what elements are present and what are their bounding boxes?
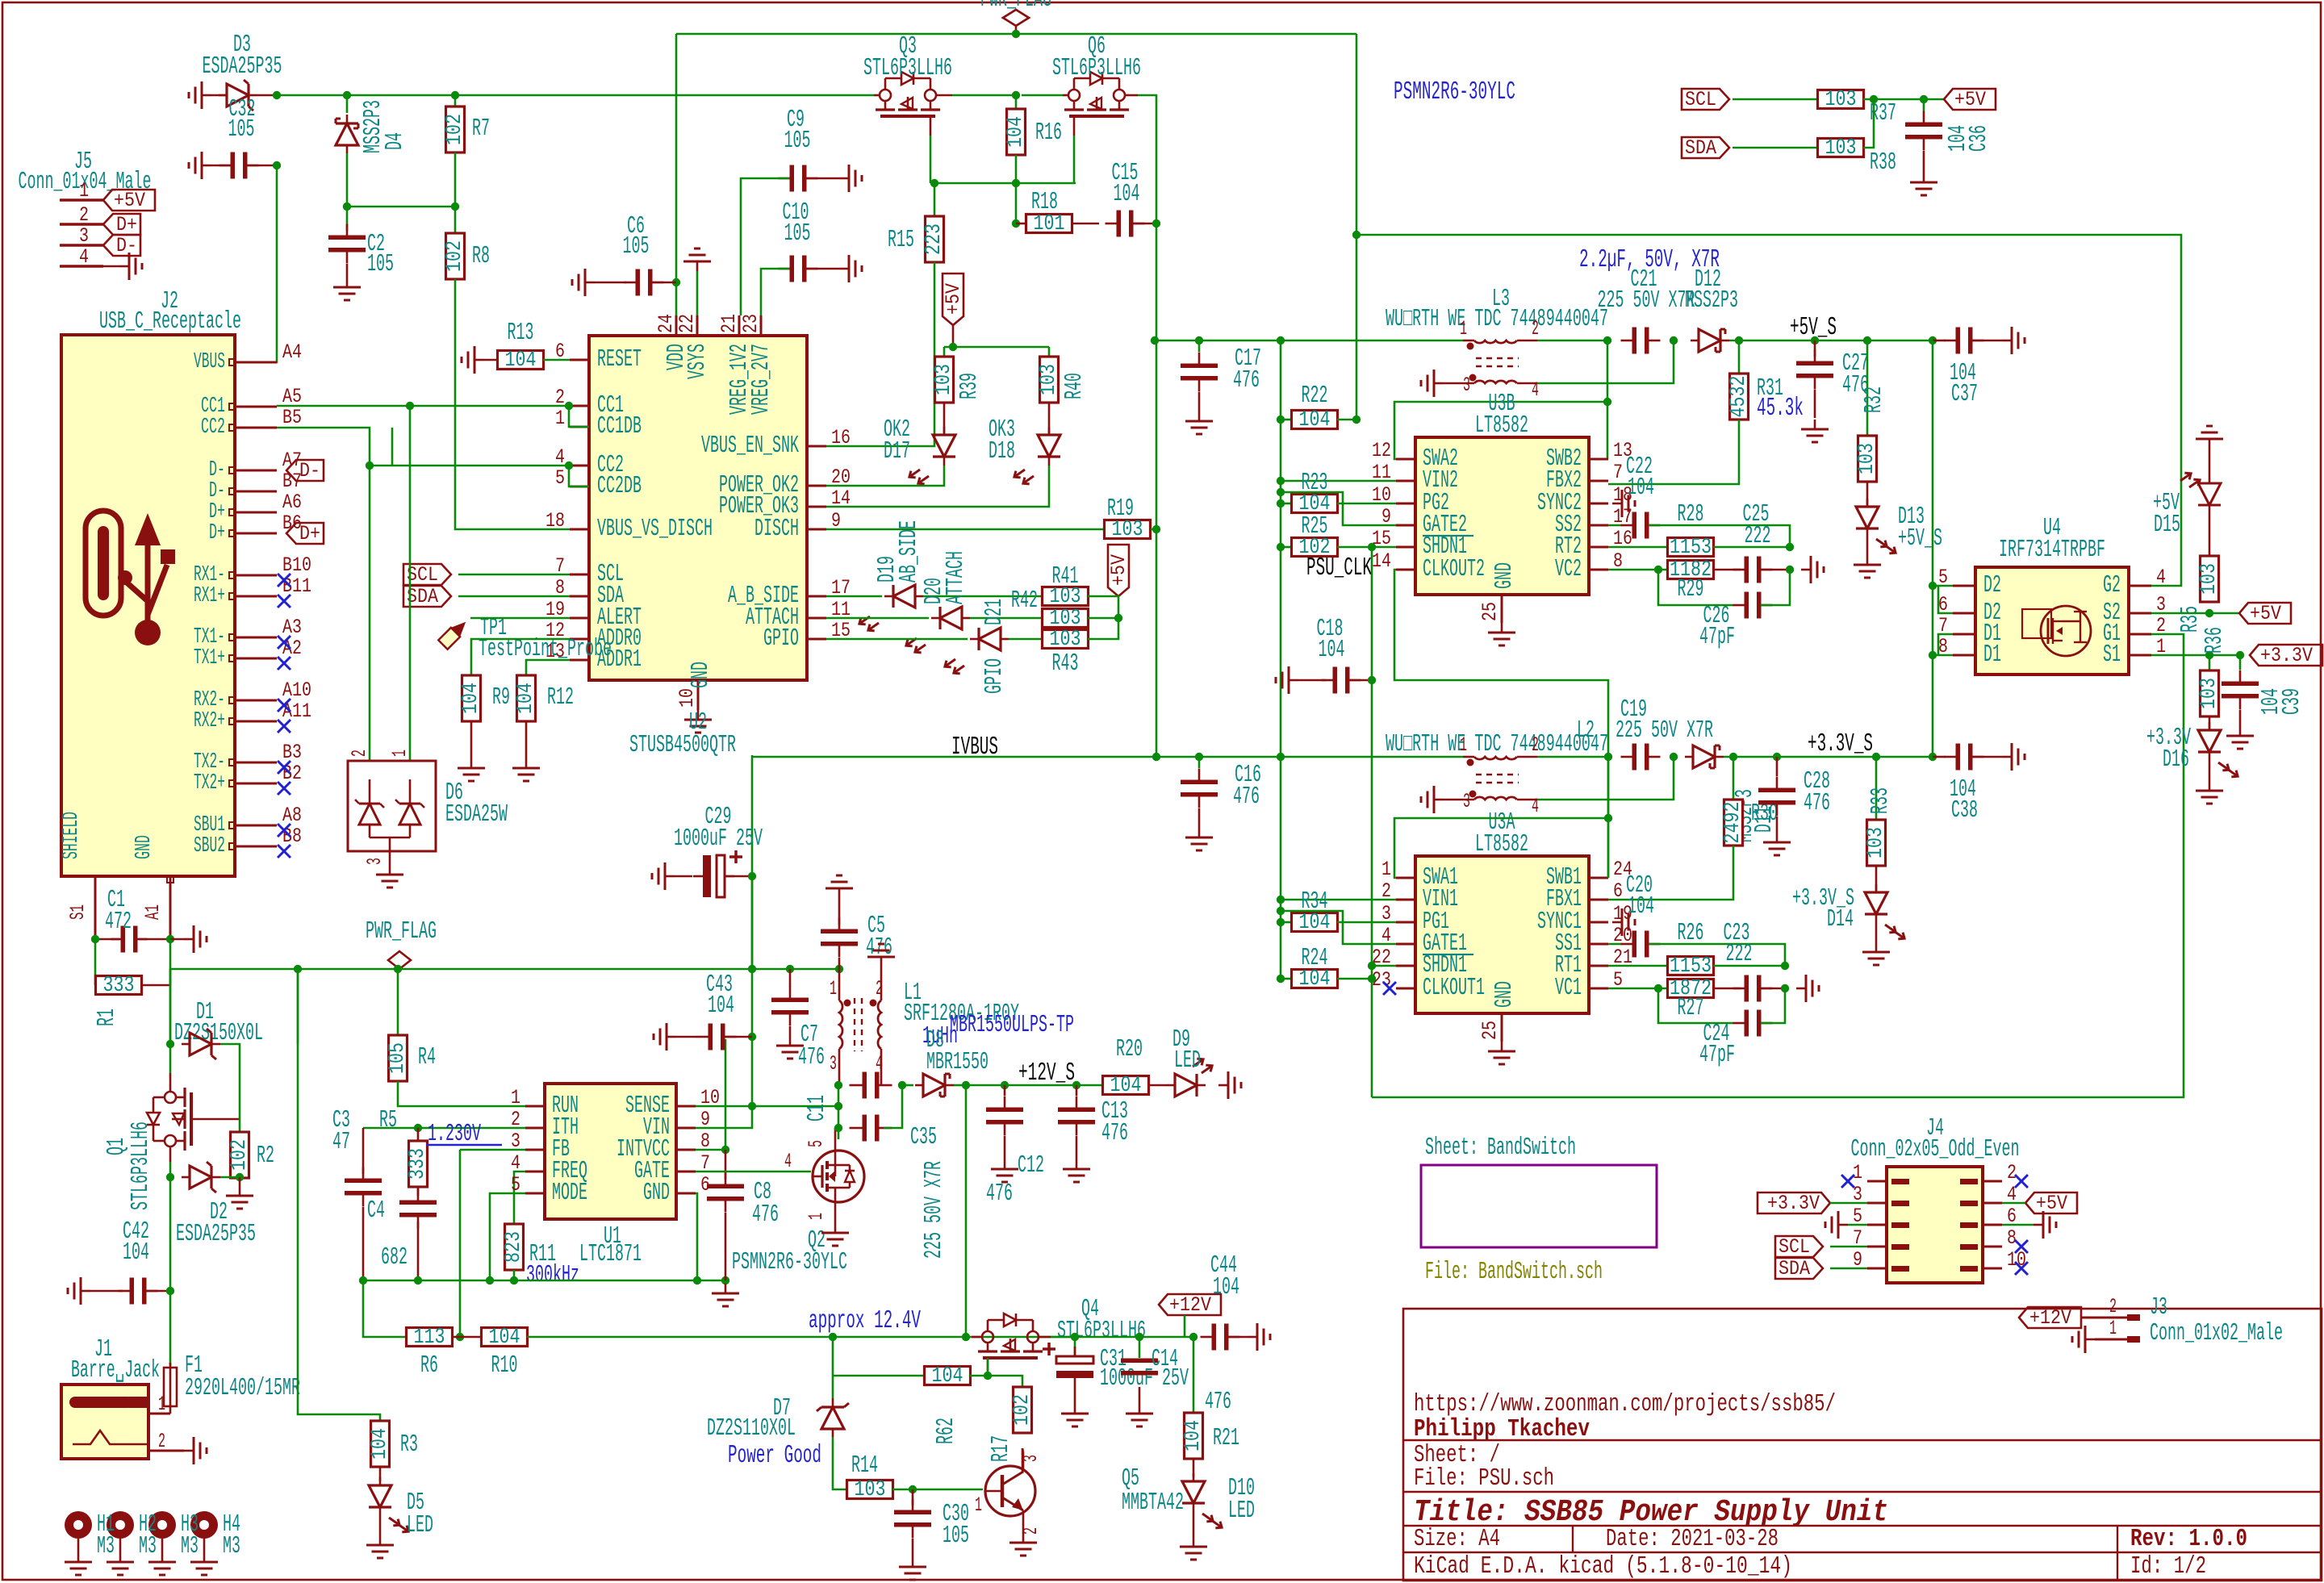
- svg-text:R18: R18: [1031, 189, 1058, 216]
- wire ATTACH to D20: [826, 617, 929, 620]
- label D14: [1827, 906, 1854, 934]
- svg-text:RESET: RESET: [597, 346, 642, 374]
- ground left of L3 sec: [1421, 370, 1444, 397]
- wire CC2 into U2: [370, 465, 570, 467]
- svg-text:476: 476: [986, 1180, 1013, 1208]
- svg-text:LT8582: LT8582: [1475, 831, 1528, 858]
- U3B GND pin 25: [1478, 595, 1502, 623]
- svg-text:476: 476: [1233, 367, 1260, 395]
- fuse F1: [164, 1363, 177, 1411]
- D6 pin3 gnd: [363, 851, 403, 888]
- label R1: [94, 1009, 121, 1026]
- junction C1 left: [91, 935, 99, 943]
- svg-text:Q1: Q1: [103, 1138, 131, 1155]
- label Q3: [899, 33, 917, 61]
- svg-text:476: 476: [1101, 1120, 1128, 1147]
- label Q6: [1088, 33, 1106, 61]
- wire R15 down: [934, 183, 936, 216]
- capacitor C7 476: [771, 969, 809, 1036]
- wire VDD down from top rail: [675, 34, 678, 282]
- junction C6-VDD: [672, 278, 680, 286]
- sheet BandSwitch box: [1421, 1165, 1657, 1247]
- svg-text:R3: R3: [400, 1431, 418, 1459]
- svg-text:476: 476: [752, 1201, 779, 1229]
- J4 pin8 NC: [2015, 1240, 2028, 1253]
- zener D2 ESDA25P35: [182, 1162, 240, 1192]
- wire Q3 gate down: [930, 136, 932, 183]
- svg-text:D+: D+: [209, 521, 225, 545]
- svg-text:2: 2: [2109, 1295, 2117, 1318]
- svg-text:STL6P3LLH6: STL6P3LLH6: [863, 55, 952, 82]
- label 45.3k: [1757, 395, 1804, 423]
- ground at J3 pin1: [2072, 1326, 2095, 1353]
- label +5V D15: [2153, 490, 2180, 539]
- junction gate R62 R17: [984, 1372, 992, 1380]
- label C3 47: [332, 1107, 350, 1156]
- svg-text:10: 10: [675, 688, 699, 708]
- label R38: [1870, 149, 1896, 177]
- LED D18 OK3: [1012, 427, 1060, 487]
- svg-text:22: 22: [675, 314, 699, 333]
- Q5 collector wire: [1022, 1448, 1023, 1473]
- capacitor C28 476: [1758, 757, 1795, 833]
- label C14 25V: [1152, 1346, 1178, 1373]
- label C8 476: [752, 1179, 779, 1229]
- wire R39 to D17: [943, 403, 946, 433]
- label J2: [161, 288, 178, 315]
- svg-text:3: 3: [79, 224, 89, 248]
- capacitor C29 polarized: [675, 850, 752, 897]
- junction R35 S2: [2205, 609, 2213, 617]
- svg-text:approx 12.4V: approx 12.4V: [809, 1307, 921, 1335]
- wire INTVCC to C8: [696, 1039, 725, 1150]
- ground right of C38: [2002, 743, 2025, 771]
- svg-text:+3.3V: +3.3V: [1767, 1192, 1820, 1215]
- svg-text:23: 23: [739, 314, 763, 333]
- svg-text:1153: 1153: [1670, 536, 1712, 560]
- wire rail left down: [169, 969, 172, 1044]
- svg-text:8: 8: [2007, 1226, 2017, 1250]
- label PSMN2R6-30YLC blue: [1394, 78, 1515, 107]
- transistor Q2 PSMN2R6-30YLC: [813, 1151, 864, 1202]
- resistor R24 104: [1281, 967, 1372, 992]
- label R21: [1213, 1425, 1239, 1452]
- svg-text:25: 25: [1478, 602, 1502, 621]
- label 1.230V: [426, 1121, 502, 1148]
- junction R11 gnd rail: [510, 1276, 518, 1284]
- wire R7 to R8: [454, 152, 457, 233]
- gnd below C7: [776, 1036, 804, 1059]
- label D8: [926, 1027, 944, 1055]
- capacitor C8 476: [707, 1150, 744, 1280]
- svg-text:103: 103: [2197, 563, 2222, 595]
- junction Q6 drain col: [1012, 91, 1020, 99]
- wire R39-R40 top row: [944, 347, 1049, 357]
- wire VIN1 row: [1281, 899, 1396, 901]
- svg-text:1: 1: [1460, 733, 1467, 757]
- ground SYNC2: [1612, 490, 1635, 517]
- svg-text:R28: R28: [1678, 501, 1704, 528]
- resistor R10 104: [452, 1326, 528, 1350]
- junction R33 top: [1872, 753, 1880, 761]
- svg-text:R22: R22: [1302, 382, 1328, 410]
- ground below C30: [899, 1557, 926, 1580]
- svg-text:D+: D+: [116, 213, 137, 236]
- mounting holes H1-H4: [65, 1511, 218, 1575]
- label R17 vertical: [988, 1435, 1015, 1462]
- svg-text:103: 103: [932, 364, 956, 395]
- junction C31: [1071, 1333, 1079, 1341]
- svg-text:A3: A3: [282, 616, 302, 639]
- label DZ2S150X0L: [174, 1020, 263, 1047]
- rail 938 right: [1156, 756, 1463, 758]
- svg-text:LED: LED: [1228, 1497, 1255, 1525]
- svg-text:104: 104: [123, 1239, 149, 1267]
- wire G2 drive: [1356, 235, 2181, 586]
- svg-text:D21: D21: [981, 599, 1009, 625]
- svg-text:D14: D14: [1827, 906, 1854, 934]
- power +12V at J3: [2019, 1306, 2081, 1330]
- ground below D14: [1862, 942, 1890, 965]
- ground below U3A: [1488, 1042, 1515, 1064]
- capacitor C30 105: [894, 1489, 931, 1557]
- label +3.3V D16: [2146, 725, 2191, 774]
- label 2920L400/15MR: [185, 1375, 300, 1402]
- resistor R28 1153: [1608, 536, 1790, 560]
- label J3: [2150, 1294, 2167, 1322]
- wire Q1 gate to R2: [191, 1118, 240, 1121]
- label 104 C39 vertical: [2258, 688, 2306, 715]
- ground below R2-D2: [226, 1177, 253, 1209]
- wire D14 gnd: [1875, 923, 1878, 942]
- label U3B LT8582: [1475, 412, 1528, 440]
- ground below C36: [1910, 173, 1937, 195]
- junction VIN2: [1277, 477, 1285, 485]
- wire ADDR0 to R9: [471, 639, 570, 675]
- ground below Q2: [821, 1223, 849, 1246]
- LED D13: [1856, 499, 1898, 556]
- wire top rail to x1681: [1016, 33, 1356, 36]
- svg-text:104: 104: [1213, 1274, 1239, 1301]
- label OK2 D17: [884, 416, 910, 466]
- svg-text:476: 476: [1804, 790, 1830, 817]
- U1 left pins: [511, 1086, 587, 1207]
- resistor R8 102: [443, 233, 467, 279]
- ground below R9: [458, 721, 485, 781]
- capacitor C12 476: [986, 1085, 1023, 1159]
- label R3: [400, 1431, 418, 1459]
- svg-text:VC1: VC1: [1555, 975, 1582, 1002]
- svg-text:104: 104: [1628, 893, 1654, 921]
- wire A_B_SIDE to D19: [826, 595, 882, 598]
- svg-text:ESDA25W: ESDA25W: [445, 801, 508, 829]
- ground left of C32: [189, 152, 211, 179]
- label Q1 STL6P3LLH6 vertical: [127, 1121, 155, 1210]
- wire FB row: [460, 1150, 525, 1337]
- svg-text:IRF7314TRPBF: IRF7314TRPBF: [1999, 537, 2105, 564]
- svg-text:104: 104: [505, 349, 537, 373]
- hier label SCL at U2: [403, 563, 570, 587]
- wire VDD to pin: [675, 282, 678, 315]
- label J3 pin2: [2109, 1295, 2117, 1318]
- svg-text:CC2DB: CC2DB: [597, 473, 642, 500]
- gnd rail under U1: [363, 1280, 725, 1282]
- svg-text:M3: M3: [181, 1533, 199, 1560]
- U3A GND pin 25: [1478, 1013, 1502, 1042]
- svg-text:3: 3: [1463, 374, 1470, 397]
- junction CC1 at U2: [565, 402, 573, 410]
- label D21 vertical: [981, 599, 1009, 625]
- svg-text:+5V: +5V: [2250, 602, 2282, 625]
- svg-text:KiCad E.D.A. kicad (5.1.8-0-1: KiCad E.D.A. kicad (5.1.8-0-10_14): [1414, 1553, 1792, 1581]
- resistor R29 1182: [1608, 558, 1741, 583]
- junction x1587 rail938: [1277, 753, 1285, 761]
- ground SYNC1: [1612, 908, 1635, 936]
- junction R2 bottom-D2: [236, 1173, 244, 1181]
- label C31: [1100, 1346, 1126, 1373]
- svg-text:S1: S1: [66, 904, 90, 920]
- junction R28 right: [1786, 543, 1794, 551]
- junction R24 left: [1277, 975, 1285, 983]
- svg-text:103: 103: [1855, 443, 1879, 474]
- U2 right pins: [701, 426, 851, 653]
- power label +5V at J5.1: [103, 189, 155, 212]
- wire C35 right up: [884, 1085, 902, 1128]
- junction SENSE C-col: [834, 1102, 842, 1110]
- ground right of J1 pin2: [184, 1437, 207, 1464]
- junction MODE gnd rail: [486, 1276, 494, 1284]
- svg-text:1153: 1153: [1670, 954, 1712, 979]
- svg-text:GND: GND: [688, 662, 715, 688]
- wire +3.3V_S rail: [1724, 756, 1933, 758]
- transistor Q1 STL6P3LLH6: [147, 969, 191, 1177]
- labels H1-H4 M3: [97, 1511, 240, 1560]
- label R20: [1116, 1036, 1143, 1063]
- svg-text:47: 47: [332, 1129, 350, 1156]
- capacitor C13 476: [1058, 1085, 1095, 1159]
- wire VSYS: [696, 271, 699, 315]
- svg-text:+3.3V_S: +3.3V_S: [1808, 730, 1873, 758]
- wire R37 to +5V: [1863, 98, 1944, 101]
- junction G2 drive x1681: [1352, 231, 1361, 239]
- svg-text:GPIO: GPIO: [981, 658, 1009, 694]
- Q2 source wire to gnd: [834, 1202, 837, 1223]
- svg-text:B3: B3: [282, 741, 302, 764]
- svg-text:DZ2S110X0L: DZ2S110X0L: [707, 1415, 796, 1443]
- J2 SHIELD label: [60, 812, 84, 859]
- svg-text:R4: R4: [418, 1044, 436, 1071]
- capacitor C32: [211, 152, 277, 179]
- svg-text:476: 476: [1205, 1389, 1231, 1416]
- junction C11 left: [834, 1081, 842, 1089]
- resistor R31 4532: [1727, 374, 1751, 420]
- ground below C27: [1801, 420, 1829, 442]
- junction C16: [1195, 753, 1203, 761]
- label U2: [689, 709, 707, 737]
- svg-text:R29: R29: [1678, 576, 1704, 604]
- wire Q3 drain side: [718, 94, 880, 97]
- LED D5: [369, 1477, 411, 1535]
- label PSU_CLK: [1306, 554, 1372, 583]
- wire CC1 A5: [277, 405, 570, 407]
- junction R22 left: [1277, 416, 1285, 424]
- label C23 222: [1726, 941, 1753, 968]
- svg-text:R1: R1: [94, 1009, 121, 1026]
- svg-text:104: 104: [708, 992, 734, 1020]
- L1 pin4 wire down: [880, 1049, 883, 1085]
- svg-text:+12V_S: +12V_S: [1018, 1059, 1075, 1088]
- label R34: [1302, 888, 1328, 916]
- label SRF1280A-1R0Y: [904, 1000, 1019, 1028]
- input rail y1201: [170, 968, 839, 971]
- label D1: [196, 999, 214, 1026]
- svg-text:Title: SSB85 Power Supply Unit: Title: SSB85 Power Supply Unit: [1414, 1495, 1888, 1530]
- wire rail down from 369: [297, 969, 299, 1044]
- label U3B: [1489, 391, 1515, 418]
- junction VC1: [1654, 984, 1662, 992]
- svg-text:45.3k: 45.3k: [1757, 395, 1804, 423]
- label Barrel Jack: [71, 1357, 160, 1385]
- capacitor C44: [1201, 1324, 1248, 1351]
- svg-text:D17: D17: [884, 438, 910, 466]
- wire R11 bottom: [513, 1270, 516, 1280]
- svg-text:2: 2: [1532, 317, 1539, 340]
- svg-text:4: 4: [79, 245, 89, 269]
- IC body U3B LT8582: [1415, 437, 1589, 595]
- ground below U1 rail: [712, 1284, 739, 1306]
- junction C37 col: [1929, 336, 1937, 345]
- svg-text:R33: R33: [1867, 787, 1895, 814]
- junction rail x932: [748, 965, 756, 973]
- label +5V_S: [1790, 314, 1837, 342]
- svg-text:M3: M3: [223, 1533, 240, 1560]
- junction R37 out: [1870, 95, 1878, 103]
- svg-text:ESDA25P35: ESDA25P35: [203, 53, 282, 81]
- label C2 105: [367, 231, 394, 278]
- capacitor C11: [850, 1072, 892, 1099]
- svg-text:R16: R16: [1035, 119, 1062, 147]
- U3A left pins: [1372, 858, 1485, 1002]
- wire L1p3 junction: [838, 1084, 839, 1087]
- resistor R34 104: [1281, 911, 1396, 935]
- resistor R15 223: [922, 216, 947, 262]
- svg-text:+5V: +5V: [1107, 553, 1131, 586]
- junction C21 left: [1603, 336, 1611, 345]
- svg-text:C12: C12: [1018, 1152, 1044, 1180]
- label C5 476: [866, 913, 892, 962]
- IC body U2 STUSB4500QTR: [589, 336, 807, 680]
- capacitor C6 105: [595, 269, 676, 296]
- label R19: [1107, 495, 1134, 523]
- junction ITH R5: [414, 1124, 422, 1132]
- label C13 476: [1101, 1098, 1128, 1147]
- wire Q4 gate down to R62/R17: [987, 1358, 989, 1376]
- wire GATE1 hook: [1281, 911, 1396, 944]
- LED D15: [0, 0, 1, 1]
- junction FB divider: [456, 1333, 464, 1341]
- diode array D6 ESDA25W: [348, 750, 436, 851]
- wire ALERT to TP1: [470, 617, 570, 620]
- svg-text:R15: R15: [888, 227, 914, 254]
- svg-text:R2: R2: [257, 1142, 274, 1170]
- label 300kHz: [526, 1262, 579, 1289]
- svg-text:A5: A5: [282, 385, 302, 408]
- wire D1 column down to R3: [298, 1044, 380, 1421]
- svg-text:R27: R27: [1678, 995, 1704, 1022]
- power +5V above R39: [942, 274, 965, 347]
- svg-text:A6: A6: [282, 491, 302, 514]
- IC body U4 IRF7314TRPBF: [1975, 567, 2129, 675]
- label USB_C_Receptacle: [99, 308, 241, 336]
- power +3.3V at J4: [0, 0, 1, 1]
- junction CC2-D6: [366, 462, 374, 470]
- wire CC2 B5 vertical: [391, 428, 394, 466]
- diode D3 ESDA25P35: [211, 80, 277, 111]
- junction C36: [1920, 95, 1928, 103]
- label R18: [1031, 189, 1058, 216]
- svg-text:R7: R7: [472, 115, 490, 143]
- svg-text:R12: R12: [547, 684, 574, 712]
- ground at J4 pin5: [1825, 1211, 1867, 1238]
- label R24: [1302, 945, 1328, 972]
- capacitor C31 polarized: [0, 0, 1, 1]
- svg-text:ESDA25P35: ESDA25P35: [176, 1221, 256, 1248]
- wire D20 to R42: [970, 617, 1043, 620]
- label D7: [773, 1395, 791, 1422]
- svg-text:+3.3V: +3.3V: [2260, 644, 2314, 667]
- svg-text:D2: D2: [1983, 572, 2001, 599]
- wire x1681 down to R22: [1356, 34, 1358, 420]
- wire SWA2 hook: [1394, 402, 1607, 459]
- wire C3 col down to R6: [363, 1280, 407, 1337]
- resistor R27 1872: [1608, 977, 1741, 1001]
- junction C44: [1189, 1333, 1198, 1341]
- ground right of C37: [2002, 327, 2025, 354]
- label R2: [257, 1142, 274, 1170]
- label D2: [210, 1199, 228, 1226]
- svg-text:103: 103: [855, 1478, 886, 1502]
- wire S2 to +5V: [2151, 612, 2239, 615]
- label approx 12.4V: [809, 1307, 921, 1335]
- ground left of D3: [189, 81, 211, 109]
- svg-text:2492: 2492: [1721, 802, 1745, 844]
- wire D15 to R35: [2209, 505, 2211, 556]
- wire x1587 bottom end: [1280, 757, 1282, 979]
- label C21 225 50V X7R: [1598, 287, 1695, 315]
- junction C25 right: [1786, 566, 1794, 574]
- svg-text:R20: R20: [1116, 1036, 1143, 1063]
- label D5 LED: [407, 1489, 433, 1539]
- resistor R23 104: [1281, 492, 1396, 516]
- wire R41/R42/R43 common: [1088, 596, 1118, 639]
- power +12V: [0, 0, 1, 1]
- LED D20: [904, 607, 970, 655]
- label TestPoint_Probe: [479, 636, 612, 663]
- LED D15 body: [2178, 449, 2221, 505]
- J4 pin1 NC: [1841, 1175, 1854, 1188]
- label Q1 vertical: [103, 1138, 131, 1155]
- svg-text:104: 104: [514, 683, 538, 714]
- svg-text:D-: D-: [299, 459, 320, 482]
- label R40 vertical: [1061, 373, 1089, 399]
- junction R23 left: [1277, 499, 1285, 507]
- wire +12V_S rail: [966, 1084, 1102, 1087]
- svg-text:823: 823: [502, 1231, 526, 1263]
- svg-text:1: 1: [1460, 317, 1467, 340]
- label U4: [2043, 515, 2061, 542]
- J1 pin 1: [148, 1393, 170, 1416]
- label Q4 STL6P3LLH6: [1057, 1318, 1146, 1345]
